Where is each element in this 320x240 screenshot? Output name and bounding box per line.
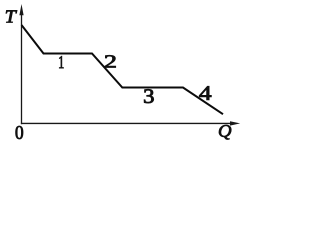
axis label Q <box>219 125 231 139</box>
Q axis arrowhead <box>230 121 240 125</box>
axis label T <box>6 10 17 22</box>
origin label 0 <box>16 126 23 139</box>
T axis arrowhead <box>19 4 23 15</box>
segment label 1 <box>59 56 63 68</box>
segment label 4 <box>199 86 211 100</box>
segment label 2 <box>105 55 115 67</box>
T axis (vertical) <box>21 12 23 124</box>
segment label 3 <box>144 89 153 103</box>
cooling curve: descent 1, plateau 1, descent 2, plateau 3, descent 4 <box>22 25 224 114</box>
Q axis (horizontal) <box>21 122 233 124</box>
